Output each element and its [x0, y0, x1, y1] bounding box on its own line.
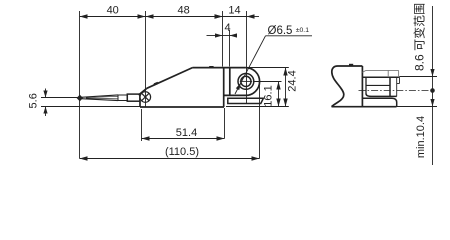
lever tip dot — [77, 95, 83, 102]
extension line y=67.6 right (24.4 top) — [246, 67, 289, 69]
svg-text:14: 14 — [228, 5, 240, 17]
switch body outline — [139, 68, 246, 107]
extension line y=76.6 to right dims — [400, 76, 438, 78]
svg-text:±0.1: ±0.1 — [296, 27, 309, 34]
body front steep edge — [139, 88, 147, 95]
body left lower edge — [139, 101, 141, 107]
hole outer circle — [238, 74, 254, 90]
CJK glyph 可 — [414, 40, 424, 51]
svg-text:5.6: 5.6 — [28, 93, 40, 108]
pivot circle with X — [140, 92, 151, 103]
end view body profile (left S-curve, top, bottom) — [332, 66, 397, 107]
lever ferrule — [118, 95, 127, 101]
dimension 48 — [146, 14, 223, 18]
extension line x=229.8 (head cap left edge up, 4 dim right) — [229, 30, 231, 67]
end view inner thin line — [366, 84, 390, 86]
reference dot — [430, 88, 435, 93]
lever block — [127, 94, 140, 101]
CJK glyph 围 — [414, 4, 425, 14]
extension line x=246.8 (hole centerline, 14 dim right) — [246, 11, 248, 103]
head semicircular right end — [224, 68, 260, 96]
svg-text:16.1: 16.1 — [263, 85, 275, 106]
lever needle (tapered arm) — [81, 95, 118, 101]
dimension 4 (arrows outside) — [207, 33, 238, 37]
svg-text:40: 40 — [107, 5, 119, 17]
extension line y=81.4 right of head (16.1 top) — [255, 81, 282, 83]
end view base plate — [362, 98, 396, 107]
svg-text:4: 4 — [224, 22, 230, 34]
dimension 24.4 — [283, 68, 287, 107]
end view shaft centerline (dash-dot) to dot — [359, 90, 432, 92]
dim label Ø6.5 ±0.1 with leader — [235, 25, 312, 94]
extension line x=145.3 (pivot centerline down to 51.4 dim) — [145, 11, 147, 107]
dimension 40 — [80, 14, 146, 18]
dim text 8.6 可变范围 (rotated) — [413, 4, 427, 71]
end view clamp block — [366, 77, 400, 96]
body slant edge — [147, 68, 193, 89]
hole horizontal center mark — [240, 80, 252, 82]
extension line x=222 (body right edge up) — [222, 11, 224, 67]
body bottom — [140, 106, 224, 108]
extension line x=224.8 (body right, 51.4 dim right) — [224, 108, 226, 139]
extension line x=78 (lever tip down to 110.5) — [79, 101, 81, 159]
CJK glyph 变 — [414, 27, 425, 38]
dimension 8.6 (down arrow + line) — [430, 6, 434, 91]
extension line x=80.2 (lever tip, 40 dim left) — [79, 11, 81, 96]
terminal plate under head — [228, 98, 264, 103]
svg-text:24.4: 24.4 — [287, 70, 299, 91]
end view top bump — [349, 64, 353, 66]
end view clamp top line — [362, 76, 399, 78]
hole inner circle Ø6.5 — [241, 76, 251, 86]
CJK glyph 范 — [414, 15, 425, 26]
svg-text:51.4: 51.4 — [176, 127, 197, 139]
dimension (110.5) — [80, 156, 260, 160]
dimension min.10.4 (dot to bottom, arrow + line) — [430, 91, 434, 166]
dimension 51.4 — [142, 136, 225, 140]
extension line y=106.7 to right dims — [397, 106, 438, 108]
dimension 14 (arrows outside) — [215, 14, 260, 18]
svg-text:Ø6.5: Ø6.5 — [268, 25, 293, 37]
end view bottom edge — [332, 106, 397, 108]
end view body right edge — [361, 66, 363, 107]
dimension 16.1 — [276, 82, 280, 107]
svg-text:8.6: 8.6 — [413, 54, 427, 71]
body top edge — [193, 67, 246, 69]
extension line y=106.8 right (16.1/24.4 bottom) — [226, 106, 289, 108]
small bump on top edge — [209, 66, 213, 68]
svg-text:min.10.4: min.10.4 — [415, 116, 427, 158]
head cap left edge — [229, 68, 231, 96]
small bump on slant edge — [152, 82, 158, 87]
end view phantom upper block — [362, 70, 398, 77]
svg-text:48: 48 — [177, 5, 189, 17]
body right edge — [223, 68, 225, 107]
dimension 5.6 (left, arrows outside) — [41, 89, 140, 117]
extension line x=259.4 (head arc right, 110.5 dim right) — [259, 82, 261, 159]
svg-text:(110.5): (110.5) — [165, 146, 199, 158]
